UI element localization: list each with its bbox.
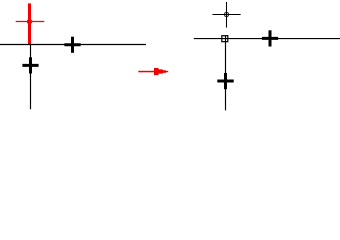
cross marker M4 on wire W5	[217, 73, 233, 89]
cross marker M1 on wire W2	[64, 37, 80, 53]
wire W3 (left lower vertical black wire)	[30, 45, 32, 110]
cursor crosshair vertical (black, right figure)	[226, 2, 228, 28]
wire W5 (right vertical black wire)	[225, 35, 227, 110]
wire W4 (right horizontal black wire)	[194, 38, 340, 40]
wire W1 (red vertical wire being drawn, left figure)	[28, 3, 31, 44]
cursor crosshair horizontal (black, right figure)	[212, 14, 240, 16]
cross marker M2 on wire W3	[22, 57, 38, 73]
junction dot (red attachment point)	[27, 19, 32, 24]
cross marker M3 on wire W4	[262, 30, 278, 46]
junction square (node marker at wire crossing)	[222, 36, 228, 42]
red arrow (before/after pointer)	[138, 68, 168, 75]
wire W2 (left horizontal black wire)	[0, 44, 146, 46]
cursor circle (pick point)	[224, 12, 228, 16]
cursor crosshair horizontal (red)	[16, 21, 45, 23]
